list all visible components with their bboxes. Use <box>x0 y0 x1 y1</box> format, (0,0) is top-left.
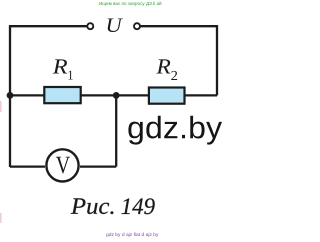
terminal: right open circle of source U <box>134 23 140 29</box>
label R2 letter R <box>156 59 170 73</box>
wire: middle rail right segment (R2 to right branch) <box>184 94 217 96</box>
caption number 149 <box>122 198 155 214</box>
watermark top green text <box>99 2 162 7</box>
wire: voltmeter branch vertical from node B <box>115 95 117 166</box>
watermark gdz.by <box>128 116 222 145</box>
resistor R1 body <box>44 87 80 103</box>
voltmeter V body circle <box>46 149 78 181</box>
caption word Рис. <box>71 198 114 214</box>
wire: right vertical branch <box>216 25 218 95</box>
scan artifact: left edge pink mark upper <box>0 101 2 112</box>
wire: top-right horizontal segment from right terminal <box>140 25 217 27</box>
scan artifact: left edge pink mark lower <box>0 213 2 223</box>
label R1 letter R <box>53 59 68 73</box>
watermark bottom purple text <box>106 233 158 238</box>
wire: voltmeter branch bottom right segment <box>80 165 116 167</box>
wire: middle rail between R1 and R2 <box>80 94 150 96</box>
wire: voltmeter branch bottom left segment <box>10 165 45 167</box>
wire: left vertical branch <box>9 25 11 167</box>
wire: top-left horizontal segment to left terminal <box>10 25 87 27</box>
voltmeter V letter <box>56 157 70 174</box>
label U (voltage) <box>108 19 123 32</box>
terminal: left open circle of source U <box>87 23 93 29</box>
wire: middle rail left segment (node A to R1) <box>10 94 45 96</box>
junction node A (left rail dot) <box>7 92 14 99</box>
label R2 subscript 2 <box>171 71 177 80</box>
label R1 subscript 1 <box>68 71 72 80</box>
resistor R2 body <box>149 88 185 104</box>
junction node B (between R1 and R2) <box>113 92 120 99</box>
